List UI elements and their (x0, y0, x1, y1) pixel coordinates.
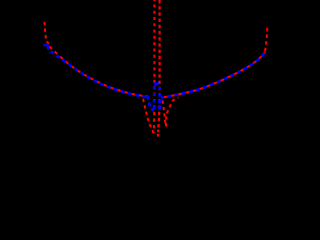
red pole wall right with tail (158, 0, 159, 129)
red analytic curve: right branch of U (161, 52, 265, 98)
red left dip bottom dash (152, 131, 154, 133)
blue dip rejoin (159, 99, 161, 111)
blue center spike top dash (154, 82, 159, 85)
red analytic curve: left wall (44, 22, 49, 44)
blue numerical curve: start jog vertical (47, 46, 49, 50)
red tail bottom dash 2 (157, 134, 159, 137)
blue spike right vertical (dip) (158, 87, 161, 111)
red tail bottom dash 1 (157, 130, 159, 133)
red left dip V (143, 95, 155, 132)
blue spike left vertical (153, 87, 156, 111)
blue numerical curve: start jog horizontal (43, 44, 48, 47)
blue numerical curve: left branch of U (48, 50, 148, 97)
blue left short tail (148, 96, 155, 111)
red analytic curve: left branch of U (49, 46, 148, 97)
red right dip V (162, 97, 178, 126)
red pole wall left (153, 0, 155, 95)
red right wall (265, 25, 268, 52)
blue numerical curve: right branch of U (161, 52, 265, 98)
